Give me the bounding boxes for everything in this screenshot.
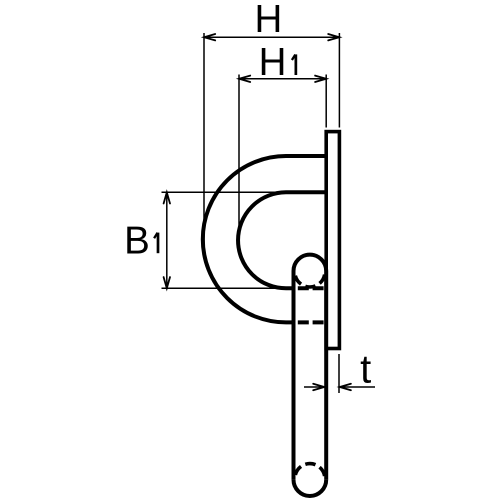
arrowhead B1 top xyxy=(164,192,170,203)
wire: dimension t extension line xyxy=(338,354,340,393)
svg-text:B: B xyxy=(124,219,150,262)
wire: dimension H left extension line xyxy=(203,33,205,245)
ring bottom cross-section hidden arc (dashed upper half) xyxy=(295,464,325,479)
wire: dimension H right extension line xyxy=(338,33,340,128)
svg-text:t: t xyxy=(360,347,371,391)
wire: dimension H1 right extension line xyxy=(325,75,327,128)
svg-text:H: H xyxy=(259,41,287,84)
wire: dimension t left line xyxy=(304,386,324,388)
ring top cap (solid upper half circle) xyxy=(294,255,327,271)
arrowhead H1 left xyxy=(239,76,250,82)
wire: dimension B1 bottom extension line xyxy=(162,287,293,289)
wire: dimension H line xyxy=(204,36,339,38)
arrowhead t right (pointing left) xyxy=(340,384,351,390)
arrowhead t left (pointing right) xyxy=(313,384,324,390)
wire: dimension H1 left extension line xyxy=(238,75,240,246)
arrowhead H right xyxy=(328,34,339,40)
wire: dimension B1 top extension line xyxy=(162,191,293,193)
wire: dimension H1 line xyxy=(239,78,326,80)
arrowhead H1 right xyxy=(315,76,326,82)
ring left edge xyxy=(292,271,296,480)
wire: dimension B1 line xyxy=(166,192,168,288)
eye loop outer contour (solid) xyxy=(203,156,328,322)
ring right edge xyxy=(324,271,328,480)
ring bottom cap (solid lower half circle) xyxy=(294,480,327,496)
eye loop outer contour hidden line (dashed behind ring) xyxy=(296,320,328,324)
arrowhead B1 bottom xyxy=(164,277,170,288)
wire: dimension t right line xyxy=(340,386,375,388)
eye loop inner contour hidden line (dashed behind ring) xyxy=(296,286,328,290)
eye loop inner contour (solid) xyxy=(238,192,328,288)
svg-text:H: H xyxy=(254,0,282,41)
arrowhead H left xyxy=(204,34,215,40)
ring top cross-section hidden arc (dashed lower half) xyxy=(295,272,325,287)
plate (mounting strap, edge view) xyxy=(326,132,339,349)
